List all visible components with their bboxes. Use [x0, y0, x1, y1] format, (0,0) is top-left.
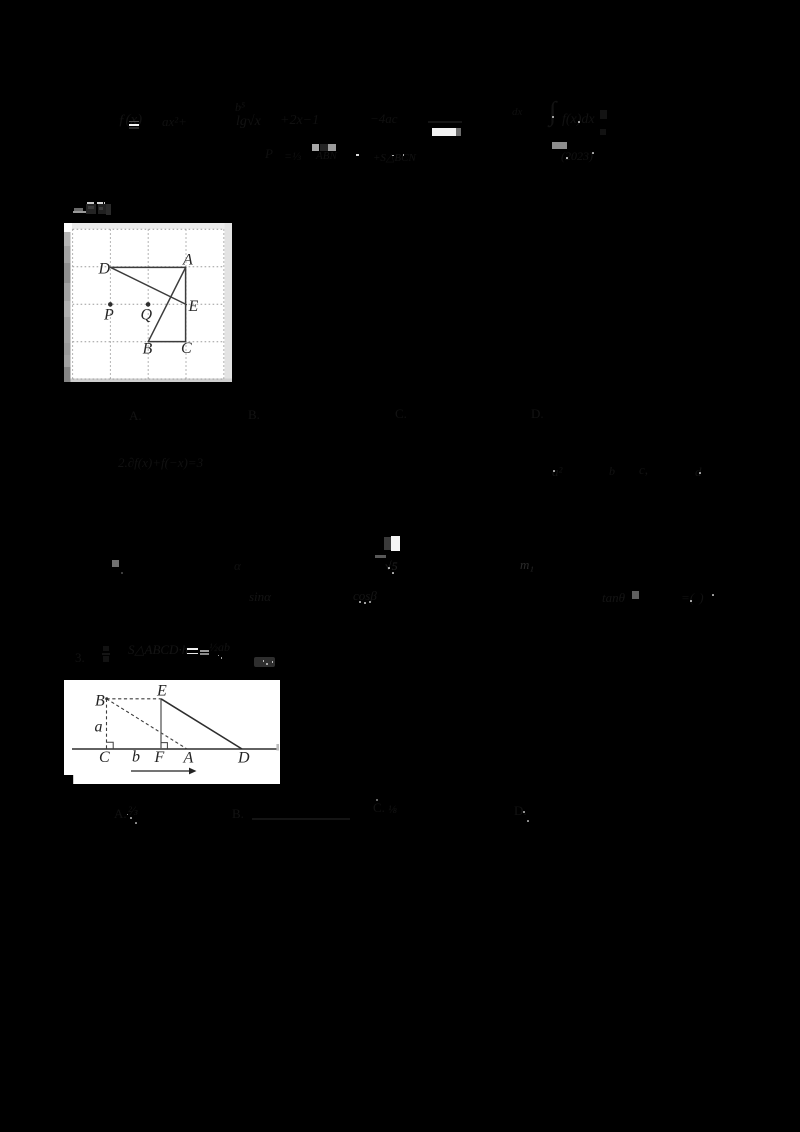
svg-text:B: B — [143, 341, 153, 358]
svg-text:C: C — [99, 749, 110, 766]
svg-text:E: E — [188, 298, 199, 315]
svg-text:b: b — [132, 749, 140, 766]
svg-text:P: P — [103, 307, 114, 324]
svg-text:A: A — [183, 750, 194, 767]
svg-text:D: D — [98, 261, 111, 278]
svg-text:C: C — [181, 340, 192, 357]
svg-text:A: A — [182, 252, 193, 269]
svg-text:a: a — [95, 719, 103, 736]
svg-text:B: B — [95, 692, 105, 709]
svg-text:Q: Q — [141, 307, 153, 324]
svg-text:F: F — [154, 749, 165, 766]
svg-text:D: D — [237, 750, 250, 767]
svg-text:E: E — [156, 683, 167, 700]
